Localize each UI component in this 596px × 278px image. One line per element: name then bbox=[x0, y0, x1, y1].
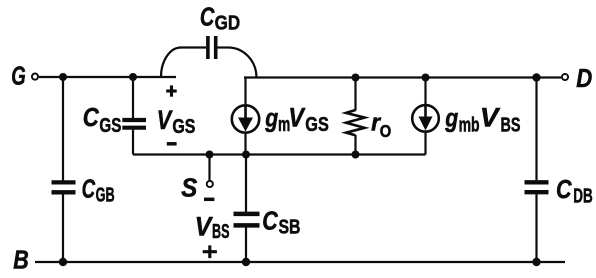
terminal circle S bbox=[207, 181, 213, 187]
node dot B-left bbox=[59, 258, 67, 266]
terminal circle D bbox=[562, 74, 568, 80]
node dot drain-gmb bbox=[422, 74, 430, 82]
node dot B-CDB bbox=[532, 258, 540, 266]
wire gmb source upper lead bbox=[424, 78, 426, 105]
wire gate rail bbox=[39, 76, 176, 78]
wire right vertical lower (CDB to B) bbox=[535, 194, 537, 262]
wire gm source upper lead bbox=[244, 78, 246, 105]
node dot G2 bbox=[129, 73, 137, 81]
svg-text:B: B bbox=[13, 247, 28, 275]
svg-text:g: g bbox=[444, 102, 458, 132]
svg-text:SB: SB bbox=[279, 216, 301, 238]
wire CGD right lead bbox=[217, 46, 228, 48]
minus S bbox=[204, 198, 214, 202]
wire rO upper lead bbox=[354, 78, 356, 111]
capacitor CGB bbox=[52, 182, 76, 192]
capacitor CDB bbox=[525, 182, 549, 192]
plus VBS bbox=[203, 245, 217, 258]
minus VGS bbox=[167, 142, 177, 146]
wire right vertical upper (D to CDB) bbox=[535, 78, 537, 181]
svg-text:S: S bbox=[181, 175, 197, 203]
svg-text:GS: GS bbox=[172, 116, 195, 138]
svg-text:C: C bbox=[82, 174, 96, 204]
svg-text:V: V bbox=[288, 103, 305, 133]
svg-text:D: D bbox=[576, 65, 592, 93]
wire bottom B rail bbox=[35, 261, 565, 263]
svg-text:O: O bbox=[380, 121, 392, 141]
wire CGD right arc bbox=[228, 48, 257, 78]
wire gm source lower lead bbox=[244, 133, 246, 154]
svg-text:V: V bbox=[195, 211, 213, 241]
svg-text:V: V bbox=[480, 102, 501, 132]
current source U1 gmVGS bbox=[232, 105, 259, 132]
wire CGD left lead bbox=[180, 46, 206, 48]
wire S stub bbox=[208, 155, 210, 181]
node dot source-rO bbox=[352, 151, 360, 159]
svg-text:GS: GS bbox=[99, 115, 121, 137]
node dot G1 bbox=[59, 73, 67, 81]
node dot source-CSB bbox=[242, 151, 250, 159]
wire left vertical upper (G to CGB) bbox=[62, 77, 64, 181]
capacitor CSB bbox=[234, 214, 260, 226]
wire CGS branch upper bbox=[132, 77, 134, 118]
svg-text:GS: GS bbox=[305, 114, 329, 136]
svg-text:C: C bbox=[200, 1, 215, 31]
node dot source-S bbox=[206, 151, 214, 159]
wire left vertical lower (CGB to B) bbox=[62, 194, 64, 262]
svg-text:GB: GB bbox=[96, 185, 115, 207]
svg-text:GD: GD bbox=[215, 13, 241, 35]
wire gmb source lower lead bbox=[424, 132, 426, 154]
wire rO lower lead bbox=[354, 135, 356, 155]
svg-text:C: C bbox=[262, 205, 279, 235]
resistor rO bbox=[346, 110, 365, 135]
svg-text:mb: mb bbox=[459, 114, 480, 136]
wire CGS branch lower bbox=[132, 130, 134, 155]
wire CSB branch upper bbox=[245, 155, 247, 212]
wire CGD left arc bbox=[161, 48, 181, 78]
wire CSB branch lower bbox=[245, 228, 247, 263]
node dot drain-CDB bbox=[532, 73, 540, 81]
svg-text:g: g bbox=[264, 103, 278, 133]
node dot B-CSB bbox=[242, 258, 250, 266]
svg-text:V: V bbox=[157, 105, 173, 135]
terminal circle G bbox=[32, 74, 38, 80]
wire source rail bbox=[133, 153, 426, 155]
svg-text:BS: BS bbox=[212, 221, 230, 243]
wire drain rail bbox=[244, 76, 561, 78]
node dot drain-rO bbox=[352, 74, 360, 82]
capacitor CGD bbox=[208, 36, 216, 59]
capacitor CGS bbox=[122, 120, 146, 128]
plus VGS bbox=[166, 85, 177, 96]
current source U2 gmbVBS bbox=[412, 105, 439, 132]
svg-text:BS: BS bbox=[501, 114, 521, 136]
svg-text:C: C bbox=[83, 102, 100, 132]
svg-text:G: G bbox=[11, 62, 26, 90]
svg-text:DB: DB bbox=[573, 185, 593, 207]
svg-text:C: C bbox=[556, 174, 573, 204]
